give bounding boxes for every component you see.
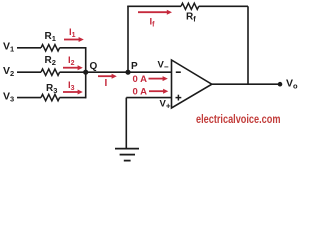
wire non-inverting input horizontal: [126, 97, 171, 99]
current arrow 0A upper: [133, 74, 168, 85]
op-amp U1: [172, 60, 212, 108]
label V1: [3, 41, 14, 54]
current arrow I: [98, 74, 117, 89]
resistor R2: [41, 55, 60, 75]
wire feedback top left: [127, 5, 181, 7]
label V+ non-inverting input: [160, 99, 171, 111]
svg-text:V3: V3: [3, 91, 14, 104]
label V2: [3, 65, 14, 78]
resistor R1: [41, 31, 60, 51]
wire V3 lead: [17, 97, 41, 99]
ground: [115, 149, 139, 161]
watermark electricalvoice.com: [196, 112, 281, 126]
current arrow If: [138, 10, 172, 29]
wire R3 to bus: [60, 97, 86, 99]
svg-text:R3: R3: [46, 83, 57, 95]
svg-text:R2: R2: [45, 55, 56, 67]
svg-text:V1: V1: [3, 41, 14, 54]
wire P up to feedback: [127, 6, 129, 72]
svg-text:I: I: [105, 78, 108, 89]
label V3: [3, 91, 14, 104]
wire R2 to node Q: [60, 71, 86, 73]
wire non-inverting input down to ground: [125, 98, 127, 148]
svg-text:I2: I2: [68, 55, 75, 67]
svg-text:Rf: Rf: [186, 12, 196, 24]
wire feedback top right: [199, 5, 248, 7]
node Vo terminal: [278, 78, 298, 91]
svg-text:V2: V2: [3, 65, 14, 78]
wire Q to op-amp inverting input: [86, 71, 172, 73]
current arrow I2: [63, 55, 83, 70]
current arrow I3: [63, 80, 83, 95]
wire feedback right vertical: [247, 6, 249, 85]
svg-text:I3: I3: [68, 80, 75, 92]
wire op-amp output: [212, 83, 280, 85]
svg-text:V+: V+: [160, 99, 171, 111]
wire V1 lead: [17, 47, 41, 49]
svg-text:R1: R1: [45, 31, 56, 43]
current arrow I1: [64, 27, 84, 42]
svg-text:0 A: 0 A: [133, 74, 148, 85]
svg-text:0 A: 0 A: [133, 87, 148, 98]
node P: [125, 61, 138, 75]
svg-text:If: If: [150, 17, 156, 29]
resistor R3: [41, 83, 60, 101]
svg-text:Q: Q: [90, 61, 98, 72]
svg-text:Vo: Vo: [286, 78, 298, 91]
resistor Rf: [181, 3, 199, 23]
svg-text:I1: I1: [69, 27, 76, 39]
svg-text:electricalvoice.com: electricalvoice.com: [196, 112, 281, 126]
wire summing bus vertical: [85, 47, 87, 98]
svg-text:V−: V−: [158, 60, 169, 72]
wire V2 lead: [17, 71, 41, 73]
wire R1 to bus: [60, 47, 86, 49]
current arrow 0A lower: [133, 87, 169, 98]
svg-text:P: P: [131, 61, 138, 72]
label V- inverting input: [158, 60, 169, 72]
node Q: [83, 61, 97, 75]
